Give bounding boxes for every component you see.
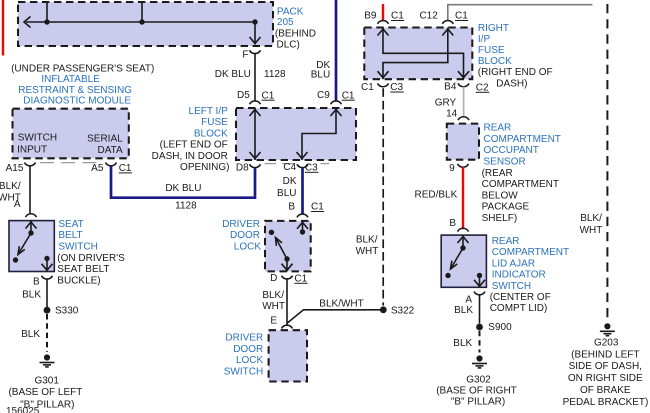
wire pin B into door lock	[302, 221, 304, 232]
svg-text:BLU: BLU	[277, 188, 296, 199]
svg-text:OPENING): OPENING)	[180, 162, 229, 173]
wire branch BLK/WHT to S322	[287, 310, 380, 323]
switch blade of lid switch	[451, 248, 464, 269]
svg-text:(BASE OF LEFT: (BASE OF LEFT	[8, 387, 82, 398]
svg-text:C9: C9	[317, 90, 330, 101]
arrow up at pin A inside seat belt switch	[26, 222, 37, 229]
arrow up at D5	[250, 110, 261, 117]
node fixed contact dot	[13, 257, 18, 262]
svg-text:BLK: BLK	[454, 305, 473, 316]
pin B4 connector C2	[458, 83, 469, 86]
wire D5 to D8 inside left fuse block	[254, 108, 256, 160]
svg-text:COMPARTMENT: COMPARTMENT	[492, 247, 569, 258]
wire BLK/WHT dashed from top right to G203	[606, 4, 608, 321]
svg-text:(RIGHT END OF: (RIGHT END OF	[478, 67, 553, 78]
splice S322	[380, 306, 387, 313]
wire BLK dashed from S330 to G301	[46, 314, 48, 352]
svg-text:FUSE: FUSE	[201, 117, 228, 128]
svg-text:C2: C2	[476, 82, 489, 93]
wire C12 to C1 inside right fuse block	[383, 28, 448, 80]
svg-text:BLK/: BLK/	[0, 181, 21, 192]
pin A15 connector	[25, 163, 36, 166]
seat belt switch box	[9, 221, 54, 272]
svg-text:INFLATABLE: INFLATABLE	[41, 74, 100, 85]
svg-text:B: B	[449, 218, 456, 229]
svg-text:SHELF): SHELF)	[482, 213, 518, 224]
svg-text:A: A	[465, 294, 472, 305]
svg-text:RED/BLK: RED/BLK	[415, 189, 458, 200]
svg-text:A: A	[14, 199, 21, 210]
svg-text:1128: 1128	[175, 200, 197, 211]
svg-text:G301: G301	[34, 376, 59, 387]
svg-text:S900: S900	[488, 322, 512, 333]
svg-text:E: E	[270, 315, 277, 326]
svg-text:SEAT: SEAT	[58, 219, 83, 230]
svg-text:SWITCH: SWITCH	[492, 281, 531, 292]
svg-text:OF BRAKE: OF BRAKE	[580, 385, 631, 396]
svg-text:S330: S330	[55, 306, 79, 317]
svg-text:BLK: BLK	[22, 289, 41, 300]
node fixed contact dot	[445, 273, 450, 278]
pin 9 connector of occupant sensor	[458, 164, 469, 167]
svg-text:BUCKLE): BUCKLE)	[57, 275, 100, 286]
svg-text:SERIAL: SERIAL	[87, 133, 123, 144]
svg-text:BLK: BLK	[453, 338, 472, 349]
svg-text:D8: D8	[236, 163, 249, 174]
svg-text:(CENTER OF: (CENTER OF	[490, 292, 551, 303]
svg-text:BLU: BLU	[311, 69, 330, 80]
svg-text:WHT: WHT	[356, 246, 379, 257]
svg-text:REAR: REAR	[484, 123, 512, 134]
svg-text:G302: G302	[466, 375, 491, 386]
svg-text:DIAGNOSTIC MODULE: DIAGNOSTIC MODULE	[23, 95, 131, 106]
wire GRY 14 from B4 to sensor	[463, 87, 465, 117]
wire BLK/WHT from A15 to A	[29, 166, 31, 214]
arrow down at pin A inside lid switch	[474, 280, 485, 287]
wire RED/BLK from 9 to B of lid switch	[462, 167, 464, 229]
svg-text:BLK/WHT: BLK/WHT	[319, 298, 363, 309]
svg-text:D: D	[270, 273, 277, 284]
splice pack 205 box	[18, 2, 273, 46]
svg-text:REAR: REAR	[492, 236, 520, 247]
svg-text:C4: C4	[283, 162, 296, 173]
svg-text:BLK/: BLK/	[580, 213, 602, 224]
node junction dots in splice pack	[44, 19, 49, 24]
svg-text:D5: D5	[237, 90, 250, 101]
pin A5 connector C1	[106, 163, 117, 166]
ground G203	[600, 323, 615, 336]
svg-text:9: 9	[449, 163, 455, 174]
svg-text:RIGHT: RIGHT	[478, 23, 509, 34]
svg-text:(UNDER PASSENGER'S SEAT): (UNDER PASSENGER'S SEAT)	[11, 63, 154, 74]
arrow up at B9	[378, 29, 389, 36]
svg-text:OCCUPANT: OCCUPANT	[484, 145, 539, 156]
right I/P fuse block box	[364, 28, 472, 80]
pin B connector of lid switch	[458, 228, 469, 231]
node pivot dot	[460, 245, 465, 250]
wire B9 to B4 inside right fuse block	[383, 28, 464, 80]
svg-text:C12: C12	[419, 10, 438, 21]
svg-text:C1: C1	[455, 11, 468, 22]
ground G302	[472, 355, 487, 368]
svg-text:DRIVER: DRIVER	[225, 333, 263, 344]
svg-text:BELT: BELT	[58, 230, 82, 241]
wire connector C1 dashed link A15 to A5	[40, 162, 103, 164]
svg-text:14: 14	[446, 109, 458, 120]
svg-text:DOOR: DOOR	[233, 344, 263, 355]
arrow down at D8	[250, 152, 261, 159]
inflatable restraint diagnostic module box	[13, 109, 129, 159]
arrowhead on blade	[276, 238, 283, 246]
svg-text:(REAR: (REAR	[482, 168, 513, 179]
svg-text:B4: B4	[444, 81, 457, 92]
node contact to pin B	[44, 256, 49, 261]
wire DK BLU 1128 from A5 to D8	[111, 166, 255, 198]
svg-text:DLC): DLC)	[277, 40, 300, 51]
svg-text:PACKAGE: PACKAGE	[482, 202, 530, 213]
pin B connector C1 of door lock	[297, 214, 308, 217]
pin D8 connector	[250, 164, 261, 167]
svg-text:FUSE: FUSE	[478, 45, 505, 56]
wire DK BLU from top edge to C9	[335, 0, 338, 101]
svg-text:SEAT BELT: SEAT BELT	[57, 264, 109, 275]
svg-text:C3: C3	[305, 162, 318, 173]
svg-text:I/P: I/P	[478, 34, 491, 45]
svg-text:DRIVER: DRIVER	[222, 219, 260, 230]
rear compartment occupant sensor box	[447, 124, 479, 160]
svg-text:BLK: BLK	[21, 329, 40, 340]
svg-text:(LEFT END OF: (LEFT END OF	[160, 140, 228, 151]
svg-text:BLOCK: BLOCK	[194, 128, 228, 139]
svg-text:DOOR: DOOR	[230, 230, 260, 241]
arrow up at pin B inside lid switch	[458, 237, 469, 244]
svg-text:B: B	[288, 201, 295, 212]
svg-text:DASH, IN DOOR: DASH, IN DOOR	[152, 151, 228, 162]
svg-text:G203: G203	[594, 337, 619, 348]
svg-text:1128: 1128	[264, 69, 286, 80]
pin C12 connector C1	[442, 21, 453, 24]
svg-text:COMPT LID): COMPT LID)	[490, 303, 548, 314]
svg-text:WHT: WHT	[580, 225, 603, 236]
wire contact to pin B	[46, 259, 48, 272]
wire C9 to C4 inside left fuse block	[302, 108, 336, 160]
svg-text:C1: C1	[361, 82, 374, 93]
splice S330	[44, 307, 51, 314]
pin C4 connector C3	[297, 164, 308, 167]
arrow down at C4	[297, 152, 308, 159]
svg-text:"B" PILLAR): "B" PILLAR)	[451, 397, 505, 408]
svg-text:C1: C1	[391, 11, 404, 22]
svg-text:C1: C1	[119, 163, 132, 174]
driver door lock box	[265, 221, 311, 272]
svg-text:COMPARTMENT: COMPARTMENT	[484, 134, 561, 145]
arrow down at B4	[458, 71, 469, 78]
arrow down at pin D inside door lock	[282, 264, 293, 271]
svg-text:LID AJAR: LID AJAR	[492, 258, 535, 269]
ground G301	[40, 354, 55, 367]
switch blade of door lock	[276, 238, 288, 260]
splice S900	[476, 324, 483, 331]
wire BLK dashed from S900 to G302	[479, 331, 481, 353]
pin C9 connector C1	[331, 101, 342, 104]
svg-text:205: 205	[277, 17, 294, 28]
wire BLK/WHT dashed from right fuse block C1 to S322	[382, 88, 384, 305]
left I/P fuse block box	[236, 108, 356, 160]
pin A connector of seat belt switch	[26, 214, 37, 217]
arrow down at C1	[378, 71, 389, 78]
svg-text:DASH): DASH)	[496, 78, 527, 89]
arrow up at pin B inside door lock	[297, 222, 308, 229]
svg-text:(BASE OF RIGHT: (BASE OF RIGHT	[436, 385, 517, 396]
pin D5 connector C1	[250, 101, 261, 104]
node contact to pin A	[477, 273, 482, 278]
pin E connector of door lock switch	[282, 325, 293, 328]
svg-text:C1: C1	[311, 202, 324, 213]
pin B9 connector C1	[378, 21, 389, 24]
wire internal bus of splice pack	[26, 21, 255, 23]
wire red stub at left page edge	[2, 0, 4, 56]
svg-text:DK: DK	[283, 176, 297, 187]
arrow down to pin F	[250, 37, 261, 44]
svg-text:B: B	[33, 277, 40, 288]
svg-text:C1: C1	[294, 273, 307, 284]
switch blade of seat belt switch	[18, 233, 31, 255]
svg-text:PACK: PACK	[277, 7, 304, 18]
svg-text:SENSOR: SENSOR	[484, 157, 526, 168]
arrow up at C12	[442, 29, 453, 36]
wire BLK from A to S900	[479, 295, 481, 324]
pin D connector C1 of door lock	[282, 276, 293, 279]
arrowhead on blade	[18, 246, 25, 254]
svg-text:(ON DRIVER'S: (ON DRIVER'S	[57, 253, 125, 264]
svg-text:SWITCH: SWITCH	[58, 241, 97, 252]
svg-text:SWITCH: SWITCH	[18, 133, 57, 144]
svg-text:DK BLU: DK BLU	[215, 69, 251, 80]
arrowhead on blade	[451, 261, 458, 269]
svg-text:PEDAL BRACKET): PEDAL BRACKET)	[563, 397, 649, 408]
pin 14 connector of occupant sensor	[458, 117, 469, 120]
wire connector C3 dashed link D8 to C4	[265, 163, 294, 165]
svg-text:SWITCH: SWITCH	[224, 367, 263, 378]
svg-text:BLK/: BLK/	[356, 235, 378, 246]
svg-text:DK BLU: DK BLU	[165, 183, 201, 194]
svg-text:WHT: WHT	[262, 301, 285, 312]
svg-text:BLK/: BLK/	[262, 290, 284, 301]
svg-text:(BEHIND: (BEHIND	[275, 28, 316, 39]
pin C1 connector C3 under right fuse block	[378, 83, 389, 86]
svg-text:BLOCK: BLOCK	[478, 56, 512, 67]
wire contact to pin A	[479, 276, 481, 288]
rear compartment lid ajar indicator switch box	[441, 235, 486, 287]
svg-text:B9: B9	[364, 10, 377, 21]
svg-text:COMPARTMENT: COMPARTMENT	[482, 179, 559, 190]
svg-text:INPUT: INPUT	[17, 145, 47, 156]
pin B connector of seat belt switch	[42, 276, 53, 279]
wire DK BLU 1128 from F to D5	[254, 53, 256, 101]
svg-text:A15: A15	[6, 163, 24, 174]
svg-text:(BEHIND LEFT: (BEHIND LEFT	[571, 349, 639, 360]
wire pin B into lid switch	[462, 235, 464, 248]
svg-text:ON RIGHT SIDE: ON RIGHT SIDE	[568, 373, 643, 384]
driver door lock switch box	[269, 330, 307, 381]
arrow up at C9	[331, 110, 342, 117]
arrow left in splice pack	[24, 17, 31, 28]
svg-text:F: F	[242, 50, 248, 61]
wire pin A into switch	[30, 221, 32, 233]
svg-text:156025: 156025	[6, 406, 40, 413]
node contact dot at B	[300, 229, 305, 234]
svg-text:BELOW: BELOW	[482, 190, 519, 201]
svg-text:LEFT I/P: LEFT I/P	[189, 106, 229, 117]
wire BLK/WHT from D to E	[286, 279, 288, 325]
wire red stub above B9	[382, 4, 384, 21]
svg-text:INDICATOR: INDICATOR	[492, 270, 546, 281]
svg-text:A5: A5	[91, 163, 104, 174]
svg-text:LOCK: LOCK	[236, 355, 264, 366]
svg-text:LOCK: LOCK	[234, 241, 262, 252]
node fixed contact dot	[269, 230, 274, 235]
wire DK BLU from C4 to B of door lock	[301, 167, 304, 214]
svg-text:SIDE OF DASH,: SIDE OF DASH,	[569, 361, 642, 372]
svg-text:DATA: DATA	[98, 145, 124, 156]
wire gray from top edge to C12	[448, 5, 593, 21]
pin F connector	[250, 50, 261, 53]
node pivot dot	[28, 230, 33, 235]
node pivot dot	[284, 256, 289, 261]
svg-text:C1: C1	[262, 90, 275, 101]
wire BLK from B to S330	[46, 279, 48, 307]
arrow down at pin B inside seat belt switch	[42, 264, 53, 271]
svg-text:GRY: GRY	[435, 97, 457, 108]
wire pivot to pin D	[286, 259, 288, 271]
pin A connector of lid switch	[474, 292, 485, 295]
svg-text:C1: C1	[342, 90, 355, 101]
svg-text:S322: S322	[391, 306, 415, 317]
